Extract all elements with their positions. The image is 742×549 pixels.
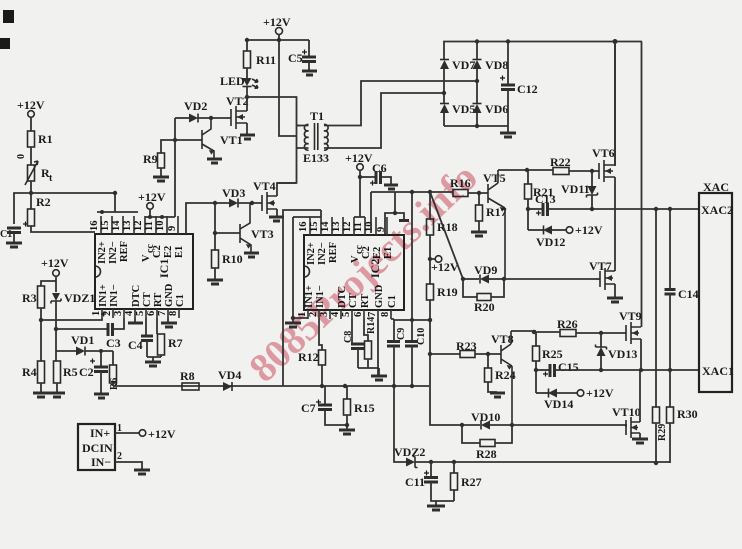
svg-text:R12: R12 (298, 350, 319, 364)
resistor R1 (28, 131, 35, 147)
svg-text:C4: C4 (128, 338, 143, 352)
wire bottom row (415, 461, 670, 463)
svg-text:RT: RT (153, 293, 164, 307)
svg-text:9: 9 (167, 226, 178, 231)
IC1 top pin numbers (89, 220, 178, 231)
svg-text:+12V: +12V (586, 386, 614, 400)
svg-text:VD11: VD11 (561, 182, 590, 196)
resistor R5 (55, 351, 57, 361)
svg-text:VT1: VT1 (220, 133, 243, 147)
resistor R28 (462, 425, 512, 443)
svg-text:1: 1 (297, 312, 308, 317)
bridge top rail (444, 42, 642, 60)
svg-text:11: 11 (144, 221, 155, 231)
resistor R7 (156, 318, 158, 334)
wire to IC1 pin1 (41, 318, 102, 320)
svg-text:14: 14 (111, 220, 122, 231)
svg-text:VD14: VD14 (544, 397, 573, 411)
svg-text:13: 13 (122, 221, 133, 232)
svg-text:C3: C3 (106, 336, 121, 350)
wire XAC2 row (548, 208, 699, 210)
svg-text:C2: C2 (79, 365, 94, 379)
svg-text:VDZ2: VDZ2 (394, 445, 425, 459)
svg-text:E2: E2 (372, 247, 383, 259)
svg-text:R25: R25 (542, 347, 563, 361)
svg-text:+12V: +12V (17, 98, 45, 112)
svg-text:C15: C15 (558, 360, 579, 374)
wire VT5 collector row (498, 169, 553, 171)
resistor R12 (319, 319, 322, 350)
svg-text:IN+: IN+ (90, 426, 110, 440)
wire top rail R11 C5 (247, 39, 309, 41)
wire VT3 base R10 (214, 203, 216, 250)
IC1 top pin labels (97, 241, 185, 264)
ground below VT3 (244, 252, 259, 255)
svg-text:C9: C9 (396, 328, 407, 340)
svg-text:R3: R3 (22, 291, 37, 305)
svg-text:C5: C5 (288, 51, 303, 65)
svg-text:R19: R19 (437, 285, 458, 299)
IC1 bottom pin numbers (91, 310, 179, 316)
svg-text:IN−: IN− (91, 455, 111, 469)
wire to VT10 gate (512, 425, 626, 427)
resistor R23 (430, 353, 460, 355)
svg-text:R20: R20 (474, 300, 495, 314)
IC2 top pin numbers (298, 221, 387, 232)
svg-text:7: 7 (157, 311, 168, 316)
wire R1 to Rt (30, 147, 32, 165)
wire +12V to R3 and VDZ1 (41, 276, 56, 292)
node +12V at VD14 (577, 390, 584, 397)
wire T1 secondary bottom to bridge (328, 93, 444, 148)
svg-text:R11: R11 (256, 53, 276, 67)
svg-text:13: 13 (331, 222, 342, 233)
ground below VT7 (607, 297, 623, 300)
ground below VT4 (269, 216, 284, 219)
svg-text:16: 16 (89, 221, 100, 232)
resistor R29 (653, 407, 660, 423)
IC2 bottom pin labels (304, 284, 398, 308)
wire R3 to pin1 wire (40, 308, 42, 361)
svg-text:4: 4 (124, 310, 135, 316)
svg-text:R10: R10 (222, 252, 243, 266)
svg-text:C1: C1 (0, 229, 12, 240)
svg-text:10: 10 (155, 221, 166, 232)
svg-text:C2: C2 (361, 246, 372, 259)
svg-text:C1: C1 (387, 295, 398, 308)
svg-text:6: 6 (146, 311, 157, 316)
svg-text:IN2−: IN2− (108, 241, 119, 264)
svg-text:IN2−: IN2− (317, 242, 328, 265)
svg-text:15: 15 (100, 221, 111, 232)
svg-text:IN2+: IN2+ (97, 241, 108, 264)
svg-text:7: 7 (367, 312, 378, 317)
node junction R2 top (29, 191, 33, 195)
IC2 bottom pin numbers (297, 311, 391, 317)
svg-text:XAC: XAC (703, 180, 729, 194)
svg-text:R4: R4 (22, 365, 37, 379)
svg-text:R27: R27 (461, 475, 482, 489)
svg-text:VD1: VD1 (71, 333, 94, 347)
wire C14 vertical (669, 209, 671, 289)
svg-text:8: 8 (168, 311, 179, 316)
capacitor C3 (56, 328, 108, 330)
svg-text:R30: R30 (677, 407, 698, 421)
ground below R4 (33, 392, 49, 395)
wire IC1 Vcc pins (145, 216, 175, 218)
svg-text:REF: REF (119, 241, 130, 262)
diagonal wire to VD9 (430, 192, 463, 279)
bottom bus wire (113, 385, 429, 387)
svg-text:V: V (350, 255, 361, 263)
svg-text:VD6: VD6 (485, 102, 508, 116)
svg-text:6: 6 (353, 312, 364, 317)
svg-text:R16: R16 (450, 176, 471, 190)
svg-text:8: 8 (380, 312, 391, 317)
resistor R17 (478, 193, 480, 205)
svg-text:IN1+: IN1+ (304, 285, 315, 308)
svg-text:IC2: IC2 (368, 259, 382, 278)
ground below VT1 (207, 158, 222, 161)
scan mark top-left (3, 10, 14, 23)
ground below R15 (339, 429, 355, 432)
svg-text:VD5: VD5 (452, 102, 475, 116)
node bridge ac left (442, 91, 446, 95)
svg-text:E2: E2 (163, 246, 174, 258)
svg-text:10: 10 (364, 222, 375, 233)
svg-text:15: 15 (309, 222, 320, 233)
svg-text:RT: RT (360, 294, 371, 308)
svg-text:C7: C7 (301, 401, 316, 415)
ground below C1 (6, 242, 22, 245)
wire right vertical from top rail (641, 42, 643, 328)
wire node to C1 (14, 193, 31, 224)
svg-text:0: 0 (16, 154, 27, 159)
svg-text:C13: C13 (535, 192, 556, 206)
svg-text:5: 5 (341, 312, 352, 317)
ground below C11 R27 (427, 505, 445, 508)
svg-text:IN2+: IN2+ (306, 242, 317, 265)
wire +12V to R1 (30, 117, 32, 131)
wire T1 primary bottom to VT4 drain (277, 126, 297, 184)
resistor R21 (527, 170, 529, 184)
ground below VT2 (240, 134, 255, 137)
svg-text:REF: REF (328, 242, 339, 263)
svg-text:GND: GND (374, 284, 385, 308)
svg-text:VT4: VT4 (253, 179, 276, 193)
svg-text:R24: R24 (495, 368, 516, 382)
svg-text:VD10: VD10 (471, 410, 500, 424)
wire IC2 E1 to R16 row (385, 192, 395, 234)
svg-text:R15: R15 (354, 401, 375, 415)
svg-text:XAC2: XAC2 (701, 203, 733, 217)
connector XAC box (699, 193, 732, 392)
wire T1 secondary top to bridge (328, 81, 477, 126)
wire VDZ2 from bus (394, 386, 406, 462)
node +12V at VD12 (566, 227, 573, 234)
wire R2 to IC1 left (31, 226, 95, 232)
ground below IC1 pin4 DTC (134, 318, 136, 322)
resistor R6 (112, 351, 114, 365)
svg-text:R7: R7 (168, 336, 183, 350)
svg-text:V: V (141, 254, 152, 262)
svg-text:R29: R29 (657, 424, 668, 441)
svg-text:DTC: DTC (337, 286, 348, 308)
resistor R20 (463, 279, 504, 297)
svg-text:VD12: VD12 (536, 235, 565, 249)
bridge bottom rail (444, 125, 508, 127)
svg-text:+12V: +12V (431, 260, 459, 274)
IC1 bottom pin labels (98, 283, 186, 307)
ground below R17 (471, 231, 487, 234)
svg-text:R17: R17 (486, 205, 507, 219)
resistor R25 (535, 332, 537, 346)
svg-text:VDZ1: VDZ1 (64, 291, 95, 305)
wire Rt to node (30, 181, 32, 209)
svg-text:+12V: +12V (345, 151, 373, 165)
wire above IC1 pins 16-13 (97, 211, 138, 213)
svg-text:+12V: +12V (138, 190, 166, 204)
ground below R10 (207, 279, 223, 282)
wire VT2 drain to T1 (247, 97, 300, 126)
wire above IC2 pins (283, 210, 321, 386)
resistor R30 (669, 370, 671, 407)
ground at IC1 pin7 GND (167, 318, 169, 322)
node +12V at R19 top (428, 257, 432, 261)
ground below C4 R7 (145, 361, 161, 364)
op-amp IC2 box (304, 235, 404, 310)
svg-text:12: 12 (133, 221, 144, 232)
ground below C12 (500, 132, 516, 135)
svg-text:IN1+: IN1+ (98, 284, 109, 307)
ground DCIN (134, 469, 150, 472)
wire node right to IC1 (31, 193, 115, 212)
svg-text:VT9: VT9 (619, 309, 642, 323)
ground below R24 (490, 392, 505, 395)
svg-text:R2: R2 (36, 195, 51, 209)
resistor R15 (346, 386, 348, 399)
svg-text:2: 2 (308, 312, 319, 317)
wire VD9 to VT7 gate (504, 278, 596, 280)
svg-text:C12: C12 (517, 82, 538, 96)
svg-text:VT5: VT5 (483, 171, 506, 185)
svg-text:3: 3 (319, 312, 330, 317)
svg-text:E1: E1 (383, 247, 394, 259)
svg-text:C1: C1 (175, 294, 186, 307)
svg-text:R5: R5 (63, 365, 78, 379)
svg-text:4: 4 (330, 311, 341, 317)
wire VT8 collector row (511, 330, 536, 332)
svg-text:R28: R28 (476, 447, 497, 461)
svg-text:LED: LED (220, 74, 245, 88)
svg-text:VD7: VD7 (452, 58, 475, 72)
IC2 bottom pin stubs (308, 310, 391, 319)
svg-text:+12V: +12V (263, 15, 291, 29)
thermistor Rt (28, 165, 35, 181)
svg-text:+12V: +12V (148, 427, 176, 441)
svg-text:IN1−: IN1− (109, 284, 120, 307)
svg-text:CT: CT (142, 292, 153, 307)
ground below VT10 (632, 438, 648, 441)
svg-text:VT3: VT3 (251, 227, 274, 241)
wire IC2 pin8 row (391, 319, 394, 341)
wire VDZ1 down (55, 301, 57, 351)
svg-text:E1: E1 (174, 246, 185, 258)
svg-text:R18: R18 (437, 220, 458, 234)
svg-text:C14: C14 (678, 287, 699, 301)
svg-text:1: 1 (91, 311, 102, 316)
svg-text:R1: R1 (38, 132, 53, 146)
svg-text:C2: C2 (152, 245, 163, 258)
svg-text:IN1−: IN1− (315, 285, 326, 308)
resistor R27 (453, 462, 455, 473)
svg-text:DTC: DTC (131, 285, 142, 307)
svg-text:+12V: +12V (575, 223, 603, 237)
ground below R9 (153, 176, 169, 179)
svg-text:R9: R9 (143, 152, 158, 166)
op-amp IC1 box (95, 234, 193, 309)
svg-text:T1: T1 (310, 109, 324, 123)
ground below R5 (49, 392, 65, 395)
connector DCIN box (78, 424, 115, 470)
svg-text:14: 14 (320, 221, 331, 232)
svg-text:IC1: IC1 (157, 259, 171, 278)
svg-text:VD2: VD2 (184, 99, 207, 113)
svg-text:12: 12 (342, 222, 353, 233)
svg-text:VT6: VT6 (592, 146, 615, 160)
ground below C2 (94, 393, 109, 396)
scan mark left edge (0, 38, 10, 49)
wire XAC1 row (555, 369, 699, 371)
svg-text:C11: C11 (405, 475, 425, 489)
svg-text:VD8: VD8 (485, 58, 508, 72)
svg-text:CT: CT (348, 293, 359, 308)
wire VD10 row (430, 354, 462, 425)
wire +12V to T1 center tap (279, 40, 297, 136)
ground at IC2 pin1 (292, 318, 294, 322)
wire IC2 IN side ground loop (293, 217, 321, 318)
IC2 top pin labels (306, 242, 394, 265)
svg-text:E133: E133 (303, 151, 329, 165)
svg-text:+12V: +12V (41, 256, 69, 270)
svg-text:VD9: VD9 (474, 263, 497, 277)
svg-text:GND: GND (164, 283, 175, 307)
svg-text:16: 16 (298, 222, 309, 233)
svg-text:R14: R14 (366, 317, 377, 334)
IC1 top pin stubs (101, 216, 178, 234)
IC1 bottom pin stubs (102, 309, 179, 318)
svg-text:2: 2 (117, 451, 122, 462)
wire VD3 row from IC1 pin9 (186, 203, 229, 234)
wire XAC2 vertical to R29 (655, 209, 657, 407)
resistor R19 (427, 284, 434, 300)
svg-text:VT10: VT10 (612, 405, 641, 419)
svg-text:R8: R8 (180, 369, 195, 383)
svg-text:DCIN: DCIN (82, 441, 113, 455)
svg-text:11: 11 (353, 222, 364, 232)
svg-text:VD4: VD4 (218, 368, 241, 382)
svg-text:XAC1: XAC1 (702, 364, 734, 378)
ground at IC2 pin7 (377, 319, 379, 375)
ground below C5 (302, 70, 317, 73)
resistor R26 (534, 331, 560, 333)
resistor R24 (487, 354, 489, 368)
wire VT6 drain vertical (614, 42, 616, 167)
zener VDZ1 (52, 293, 60, 301)
resistor R11 (246, 40, 248, 51)
resistor R18 (429, 192, 431, 219)
svg-text:R6: R6 (109, 378, 120, 390)
svg-text:5: 5 (135, 311, 146, 316)
svg-text:VD3: VD3 (222, 186, 245, 200)
svg-text:3: 3 (113, 311, 124, 316)
wire VD2 node vertical (174, 118, 176, 217)
IC2 top pin stubs (310, 217, 387, 235)
svg-text:VD13: VD13 (608, 347, 637, 361)
resistor R10 (212, 250, 219, 268)
